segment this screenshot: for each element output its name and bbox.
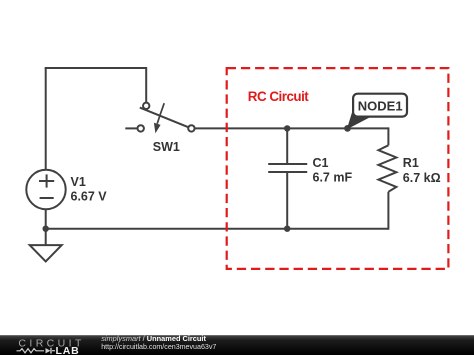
wire V1 bottom to ground — [45, 209, 47, 244]
junction node at capacitor top — [284, 125, 290, 131]
svg-text:SW1: SW1 — [153, 140, 180, 154]
svg-text:NODE1: NODE1 — [358, 99, 403, 114]
svg-text:RC Circuit: RC Circuit — [248, 89, 310, 104]
wire bottom horizontal — [46, 228, 389, 230]
junction dot at capacitor bottom — [284, 226, 290, 232]
svg-text:6.7 kΩ: 6.7 kΩ — [403, 171, 441, 185]
ground — [30, 245, 62, 261]
node NODE1 junction dot — [344, 125, 351, 132]
node NODE1 callout — [348, 94, 407, 129]
svg-text:6.67 V: 6.67 V — [71, 190, 108, 204]
wire top horizontal — [45, 67, 147, 69]
switch SW1 — [125, 103, 194, 134]
svg-text:LAB: LAB — [56, 345, 80, 355]
capacitor C1 — [268, 128, 307, 229]
svg-text:6.7 mF: 6.7 mF — [313, 170, 353, 184]
voltage source V1 — [26, 170, 65, 209]
footer bar — [0, 335, 474, 355]
wire switch to R1 corner — [194, 127, 388, 129]
svg-text:V1: V1 — [71, 175, 86, 189]
resistor R1 — [378, 145, 396, 229]
svg-text:C1: C1 — [313, 156, 329, 170]
annotation box RC Circuit (red dashed) — [227, 68, 449, 269]
svg-text:http://circuitlab.com/cen3mevu: http://circuitlab.com/cen3mevua63v7 — [101, 343, 216, 351]
svg-text:simplysmart / Unnamed Circuit: simplysmart / Unnamed Circuit — [101, 334, 206, 343]
logo CircuitLab — [17, 338, 85, 355]
wire top-left vertical (V1 top to corner) — [45, 68, 47, 170]
svg-text:R1: R1 — [403, 156, 419, 170]
wire R1 top vertical — [387, 127, 389, 145]
wire down to switch — [145, 67, 147, 103]
junction dot at V1 bottom — [43, 226, 49, 232]
